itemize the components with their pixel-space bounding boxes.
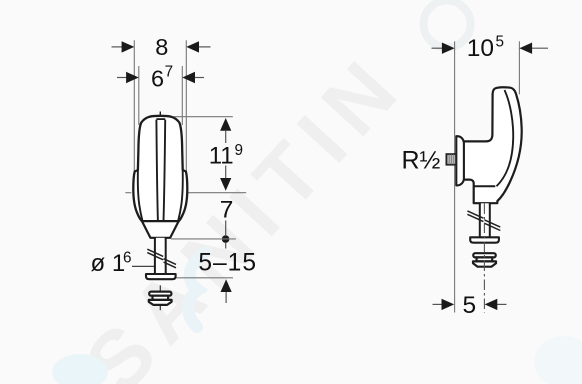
watermark SANITINO: [67, 35, 422, 384]
dim 6_7: right arrow: [195, 77, 205, 79]
grommet top bar: [473, 253, 495, 257]
dim 10_5: extension line right: [518, 41, 520, 94]
body seam line: [474, 185, 495, 187]
dim 11_9: top reference line: [174, 116, 233, 118]
svg-text:5: 5: [462, 292, 476, 319]
valve body center tick: [159, 112, 161, 117]
dim 10_5: left arrow: [432, 47, 443, 49]
grommet middle: [153, 296, 169, 300]
body inner crease: [497, 90, 514, 186]
dim 6_7: extension line right: [181, 66, 183, 125]
threaded fitting R1/2: [446, 154, 456, 165]
dim 5: left arrow: [433, 303, 443, 305]
svg-text:11: 11: [209, 143, 234, 170]
pipe break symbol: [467, 211, 483, 218]
watermark blue blob bottom-left: [52, 354, 108, 384]
svg-text:7: 7: [220, 196, 234, 223]
svg-text:6: 6: [123, 250, 132, 267]
watermark blue blob bottom-right: [534, 336, 582, 384]
svg-text:R½: R½: [402, 147, 441, 175]
dim 8: right arrow: [199, 46, 211, 48]
dim 11_9: down arrow: [225, 166, 227, 179]
pipe: [481, 203, 489, 237]
body inner contour right: [178, 171, 183, 222]
dim 8: extension line left: [133, 40, 135, 171]
svg-text:ø 1: ø 1: [91, 250, 126, 277]
dim 5-15: stem below dot: [225, 243, 227, 249]
lower cone: [142, 221, 179, 238]
wall mounting plate: [456, 136, 464, 185]
grommet top bar: [149, 292, 171, 296]
svg-text:8: 8: [155, 34, 168, 60]
grommet bottom: [473, 261, 496, 266]
dim 6_7: left arrow: [117, 77, 127, 79]
svg-text:5–15: 5–15: [198, 249, 257, 276]
grommet middle: [477, 257, 493, 261]
dim 8: left arrow: [112, 46, 124, 48]
dim 6_7: extension line left: [138, 66, 140, 125]
svg-text:10: 10: [467, 35, 494, 62]
svg-text:5: 5: [496, 34, 505, 51]
dim 11_9: bottom reference line (left tick): [125, 192, 131, 194]
dim 8: extension line right: [185, 40, 187, 171]
centerline of pipe (dash-dot): [483, 204, 485, 313]
watermark ring logo: [424, 1, 471, 48]
dim 10_5: right arrow: [532, 47, 549, 49]
dim 5-15: reference line at flange: [175, 277, 233, 279]
leader line for diameter label: [132, 265, 155, 267]
pipe break symbol: [147, 249, 163, 256]
body inner contour left: [138, 171, 143, 222]
grommet centerline: [159, 285, 161, 310]
dim 10_5: extension line left (wall plane): [454, 41, 456, 312]
dim 5-15: up arrow below: [221, 279, 232, 292]
dim 7: dot terminator: [222, 235, 230, 243]
valve body outer silhouette: [133, 116, 187, 221]
grommet bottom: [149, 300, 172, 305]
svg-text:7: 7: [165, 64, 174, 81]
dim 11_9: up arrow: [220, 118, 231, 131]
dim 11_9: bottom reference line (right segment): [188, 192, 246, 194]
supply pipe: [156, 238, 165, 274]
dim 7: reference line at dot: [171, 238, 236, 240]
dim 5: right arrow: [497, 303, 507, 305]
svg-text:6: 6: [151, 66, 164, 92]
wall flange plate: [470, 237, 499, 242]
wall flange plate: [146, 274, 176, 279]
svg-text:9: 9: [235, 142, 244, 159]
valve body side view: [460, 87, 522, 203]
lever strip: [156, 120, 158, 221]
dim 7: stem to dot: [225, 221, 227, 236]
watermark blue swoosh: [188, 252, 206, 327]
